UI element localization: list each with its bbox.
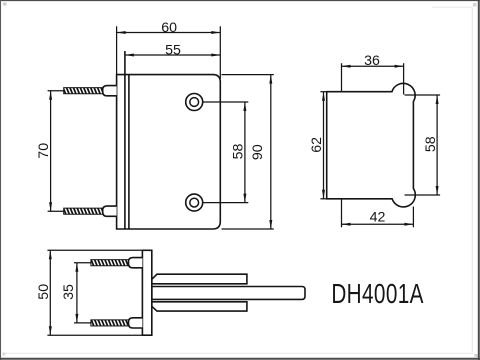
svg-text:42: 42 [370, 210, 386, 226]
dim 90: bottom arrow [269, 220, 272, 229]
dim 70: line [50, 91, 52, 212]
dim 60: left arrow [117, 31, 126, 34]
front view: lower screw [64, 208, 103, 214]
svg-text:50: 50 [36, 284, 52, 300]
dim 50: line [49, 250, 51, 335]
dim 58: bottom leader [203, 202, 248, 204]
dim 58: bottom arrow [243, 194, 246, 203]
svg-text:DH4001A: DH4001A [331, 279, 424, 309]
dim 60: left extension [116, 26, 118, 74]
dim 58R: bottom extension [405, 194, 441, 196]
bottom view: upper jaw [152, 274, 247, 284]
dim 55: left arrow [125, 54, 134, 57]
bottom view: glass panel [152, 287, 305, 300]
dim 62: top arrow [322, 92, 325, 101]
scan artifact top-left [3, 3, 7, 6]
side view: clamp profile with lobes [327, 83, 416, 207]
svg-text:36: 36 [364, 53, 380, 69]
bottom view: lower jaw [152, 302, 247, 311]
svg-text:58: 58 [230, 144, 246, 160]
dim 60: line [117, 32, 221, 34]
dim 35: bottom extension [74, 322, 91, 324]
dim 50: top extension [47, 249, 151, 251]
bottom view: back plate [142, 250, 151, 335]
front view: upper hole [186, 94, 203, 111]
dim 62: top extension [320, 91, 326, 93]
dim 62: bottom arrow [322, 190, 325, 199]
svg-text:70: 70 [36, 143, 52, 159]
dim 58: top arrow [243, 102, 246, 111]
dim 36: right arrow [395, 65, 404, 68]
dim 90: top extension [222, 74, 274, 76]
dim 60: right arrow [211, 31, 220, 34]
dim 58: line [244, 102, 246, 203]
dim 55: line [125, 54, 220, 56]
dim 50: bottom arrow [49, 326, 52, 335]
dim 42: right extension [412, 207, 414, 228]
scan artifact bottom-left [3, 353, 6, 356]
svg-text:35: 35 [61, 284, 77, 300]
dim 42: left extension [341, 199, 343, 228]
dim 36: left arrow [342, 65, 351, 68]
bottom view: upper screw [91, 260, 129, 266]
bottom view: lower screw [91, 320, 129, 326]
front view: lower hole [186, 194, 203, 211]
dim 36: left extension [341, 63, 343, 91]
dim 42: line [342, 223, 414, 225]
dim 58R: top extension [405, 94, 441, 96]
dim 90: bottom extension [222, 228, 274, 230]
dim 55: right arrow [211, 54, 220, 57]
dim 50: top arrow [49, 250, 52, 259]
dim 42: left arrow [342, 223, 351, 226]
dim 62: line [323, 92, 325, 199]
dim 70: top extension [48, 90, 64, 92]
dim 70: top arrow [49, 91, 52, 100]
front view: fold line / 55-extension [124, 51, 126, 229]
scan artifact top-right [473, 3, 477, 7]
dim 62: bottom extension [320, 198, 326, 200]
dim 35: bottom arrow [75, 314, 78, 323]
svg-text:58: 58 [423, 136, 439, 152]
dim 35: top arrow [75, 263, 78, 272]
dim 36: line [342, 65, 404, 67]
front view: clamp body plate [117, 75, 221, 229]
dim 60: right extension [219, 26, 221, 78]
scan border frame [0, 0, 480, 2]
svg-text:60: 60 [161, 20, 177, 36]
dim 36: right extension [403, 63, 405, 94]
dim 90: line [270, 75, 272, 229]
dim 70: bottom extension [48, 210, 64, 212]
dim 35: top extension [74, 262, 91, 264]
dim 42: right arrow [404, 223, 413, 226]
dim 35: line [76, 263, 78, 323]
scan artifact bottom-right [475, 354, 478, 357]
dim 90: top arrow [269, 75, 272, 84]
dim 70: bottom arrow [49, 202, 52, 211]
front view: upper screw [64, 88, 103, 94]
svg-text:90: 90 [250, 144, 266, 160]
dim 58R: top arrow [436, 95, 439, 104]
dim 58: top leader [203, 101, 248, 103]
dim 50: bottom extension [47, 334, 151, 336]
dim 58R: bottom arrow [436, 186, 439, 195]
svg-text:62: 62 [309, 137, 325, 153]
dim 58R: line [436, 95, 438, 195]
svg-text:55: 55 [165, 42, 181, 58]
front view: fold line 2 [128, 75, 130, 229]
